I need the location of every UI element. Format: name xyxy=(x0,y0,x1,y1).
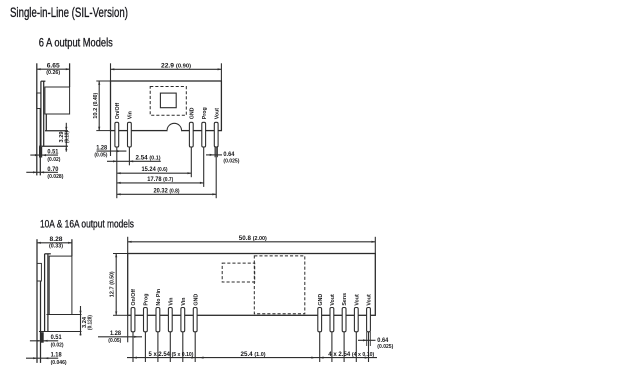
svg-text:1.18: 1.18 xyxy=(51,353,63,359)
svg-text:(0.128): (0.128) xyxy=(88,315,94,330)
svg-text:0.70: 0.70 xyxy=(47,167,59,173)
6A front body top-left extension for 10.2 xyxy=(96,80,110,82)
6A label inner square xyxy=(160,93,176,108)
svg-text:(0.05): (0.05) xyxy=(108,338,121,344)
6A side view substrate bottom line xyxy=(39,145,68,147)
svg-text:6 A output Models: 6 A output Models xyxy=(39,38,113,50)
svg-text:1.28: 1.28 xyxy=(110,331,122,337)
dimension 20.32 (0.8) xyxy=(117,193,216,195)
6A bottom notch semicircle xyxy=(167,123,182,130)
svg-text:4 x 2.54 (4 x 0.10): 4 x 2.54 (4 x 0.10) xyxy=(328,352,374,358)
6A side view body xyxy=(45,87,70,114)
10A pin extension lines xyxy=(132,332,134,362)
10A pin GND right group xyxy=(318,308,322,332)
svg-text:(0.046): (0.046) xyxy=(51,360,67,366)
10A side view pin lead left edge xyxy=(36,239,38,363)
10A front body outline xyxy=(128,254,376,316)
svg-text:8.28: 8.28 xyxy=(50,237,64,243)
10A pin No Pin left group xyxy=(156,308,160,332)
10A pin Prog left group xyxy=(144,308,148,332)
svg-text:On/Off: On/Off xyxy=(115,103,121,120)
10A side view substrate bottom line xyxy=(39,331,82,333)
dimension 0.70 (0.028) total thickness side xyxy=(26,171,58,173)
svg-text:0.64: 0.64 xyxy=(223,152,235,158)
svg-text:(0.02): (0.02) xyxy=(47,157,60,163)
svg-text:(0.025): (0.025) xyxy=(377,344,393,350)
svg-text:Vout: Vout xyxy=(354,294,360,306)
10A front body top-left extension for 12.7 xyxy=(113,253,128,255)
svg-text:22.9 (0.90): 22.9 (0.90) xyxy=(161,63,191,69)
10A side view body xyxy=(49,256,72,314)
svg-text:No Pin: No Pin xyxy=(156,289,162,306)
6A side view pin lead right edge xyxy=(39,109,41,176)
dimension 17.78 (0.7) xyxy=(117,182,204,184)
svg-text:10.2 (0.40): 10.2 (0.40) xyxy=(93,92,99,118)
dimension 3.24 (0.128) side standoff xyxy=(80,306,82,336)
10A side view case bottom extension line xyxy=(47,314,82,316)
svg-text:(0.02): (0.02) xyxy=(51,342,64,348)
10A pin On/Off left group xyxy=(131,308,135,332)
svg-text:0.51: 0.51 xyxy=(51,335,63,341)
6A GND pin extension line xyxy=(190,147,192,177)
6A side view pin lead left edge xyxy=(36,63,38,175)
svg-text:17.78 (0.7): 17.78 (0.7) xyxy=(147,177,173,183)
svg-text:5 x 2.54 (5 x 0.10): 5 x 2.54 (5 x 0.10) xyxy=(149,352,194,358)
6A pin2 extension line xyxy=(128,147,130,165)
dimension 6.65 (0.26) side width xyxy=(37,68,70,70)
svg-text:(0.028): (0.028) xyxy=(47,174,63,180)
svg-text:GND: GND xyxy=(318,294,324,306)
10A pin Vin left group xyxy=(168,308,172,332)
dimension 22.9 (0.90) body width xyxy=(110,63,112,81)
10A front body bottom-left extension xyxy=(113,314,128,316)
svg-text:Vout: Vout xyxy=(330,294,336,306)
dimension 1.28 (0.05) edge to pin1 xyxy=(97,150,127,152)
dimension 50.8 (2.00) body width xyxy=(127,237,129,254)
10A side view right extension line xyxy=(71,239,73,256)
svg-text:20.32 (0.8): 20.32 (0.8) xyxy=(154,188,180,194)
svg-text:Prog: Prog xyxy=(144,294,150,306)
svg-text:Vin: Vin xyxy=(168,297,174,305)
10A label dashed rect small xyxy=(222,263,255,282)
6A side view pin profile rect xyxy=(37,93,41,109)
svg-text:6.65: 6.65 xyxy=(47,63,61,69)
svg-text:50.8 (2.00): 50.8 (2.00) xyxy=(239,236,267,242)
svg-text:(0.05): (0.05) xyxy=(94,152,107,158)
svg-text:(0.33): (0.33) xyxy=(49,244,63,250)
6A side view case lower step xyxy=(45,114,47,131)
svg-text:25.4 (1.0): 25.4 (1.0) xyxy=(241,352,266,358)
6A pin Vin xyxy=(128,122,132,147)
6A label dashed square xyxy=(150,87,186,116)
6A Prog pin extension line xyxy=(203,147,205,187)
svg-text:0.51: 0.51 xyxy=(47,150,59,156)
svg-text:(0.26): (0.26) xyxy=(46,70,60,76)
10A pin Vout right group xyxy=(330,308,334,332)
dimension 8.28 (0.33) side width xyxy=(37,242,72,244)
10A label dashed rect large xyxy=(254,256,304,314)
6A pin GND xyxy=(189,122,193,147)
svg-text:Vin: Vin xyxy=(181,297,187,305)
6A pin On/Off xyxy=(115,122,119,147)
svg-text:(0.13): (0.13) xyxy=(65,131,71,143)
10A pin Sens right group xyxy=(342,308,346,332)
svg-text:1.28: 1.28 xyxy=(96,145,108,151)
svg-text:12.7 (0.50): 12.7 (0.50) xyxy=(110,271,116,297)
dimension 10.2 (0.40) body height xyxy=(98,81,100,131)
10A pin Vin left group xyxy=(181,308,185,332)
6A front body outline xyxy=(111,81,222,131)
6A side view substrate strip xyxy=(40,81,42,146)
svg-text:(0.025): (0.025) xyxy=(223,159,239,165)
dimension 12.7 (0.50) body height xyxy=(115,254,117,316)
svg-text:GND: GND xyxy=(193,294,199,306)
6A front body bottom-left extension for 10.2 and 1.28 xyxy=(96,130,110,132)
10A side view substrate strip xyxy=(44,254,46,332)
dimension 1.28 (0.05) 10A xyxy=(98,336,142,338)
dimension 0.51 (0.02) pin thickness side xyxy=(39,147,42,158)
10A body left edge extension down xyxy=(127,315,129,342)
dimension 2.54 (0.1) pin pitch xyxy=(107,160,161,162)
10A side view pin profile rect xyxy=(37,263,41,281)
dimension 0.64 (0.025) pin width xyxy=(214,146,216,157)
svg-text:GND: GND xyxy=(189,107,195,119)
10A pin Vout right group xyxy=(354,308,358,332)
svg-text:Prog: Prog xyxy=(202,107,208,119)
svg-text:15.24 (0.6): 15.24 (0.6) xyxy=(142,167,168,173)
svg-text:On/Off: On/Off xyxy=(131,289,137,306)
6A body left edge extension down xyxy=(110,131,112,156)
dimension 1.18 (0.046) total thickness side 10A xyxy=(26,357,58,359)
svg-text:Single-in-Line (SIL-Version): Single-in-Line (SIL-Version) xyxy=(10,5,128,20)
6A pin1 extension line xyxy=(116,147,118,198)
6A pin Prog xyxy=(202,122,206,147)
svg-text:10A & 16A output models: 10A & 16A output models xyxy=(40,219,134,231)
dimension 15.24 (0.6) xyxy=(117,172,192,174)
svg-text:Vin: Vin xyxy=(128,111,134,119)
6A pin Vout xyxy=(214,122,218,147)
10A pin GND left group xyxy=(193,308,197,332)
dimension 0.51 (0.02) pin thickness side 10A xyxy=(40,332,43,343)
6A Vout pin extension line xyxy=(215,147,217,198)
10A side view pin lead right edge xyxy=(40,281,42,363)
10A bottom main dimension line xyxy=(127,357,377,359)
6A side view case bottom line xyxy=(45,130,68,132)
dimension 0.64 (0.025) 10A pin width xyxy=(366,332,368,346)
svg-text:Vout: Vout xyxy=(367,294,373,306)
10A pin Vout right group xyxy=(367,308,371,332)
dimension 3.29 (0.13) side standoff xyxy=(65,123,67,152)
6A side view right extension line xyxy=(69,63,71,87)
svg-text:Sens: Sens xyxy=(342,293,348,306)
svg-text:2.54 (0.1): 2.54 (0.1) xyxy=(136,156,161,162)
svg-text:Vout: Vout xyxy=(214,108,220,120)
